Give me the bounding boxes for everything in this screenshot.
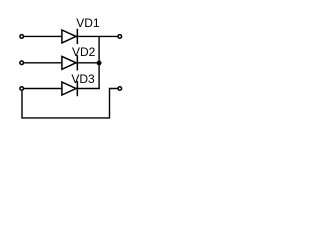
- svg-text:VD1: VD1: [76, 16, 100, 30]
- svg-text:VD2: VD2: [72, 45, 96, 59]
- svg-text:VD3: VD3: [71, 72, 95, 86]
